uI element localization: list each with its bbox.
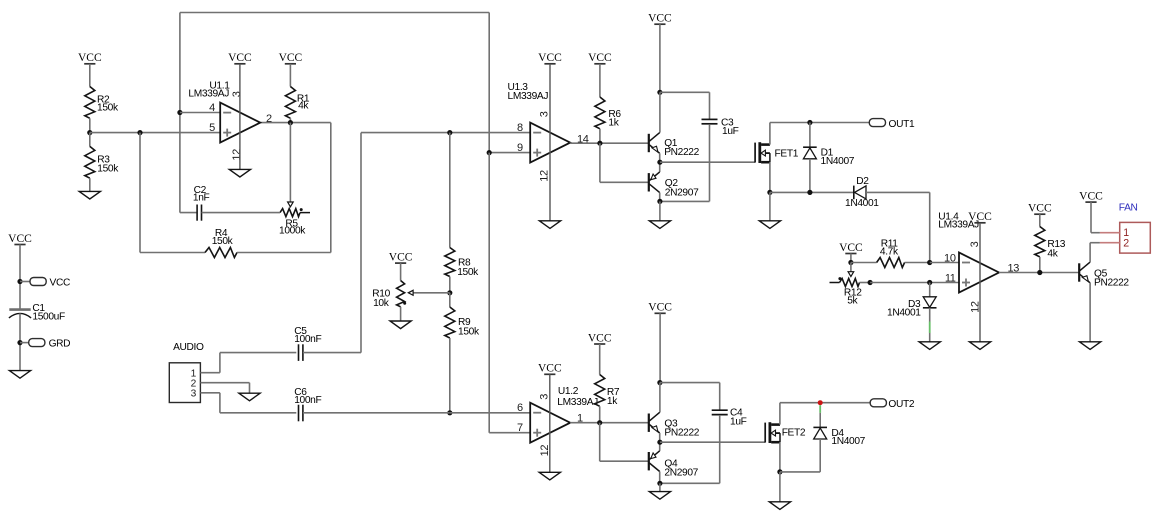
wire pin11 row [870, 282, 959, 284]
transistor Q3 PN2222 [659, 383, 661, 413]
svg-text:6: 6 [517, 402, 523, 414]
op-amp U1.3 LM339AJ [530, 123, 570, 163]
pin 1 stub (red) [1100, 232, 1120, 234]
svg-text:150k: 150k [212, 236, 234, 247]
svg-text:VCC: VCC [228, 52, 252, 64]
svg-text:VCC: VCC [968, 211, 992, 223]
svg-text:150k: 150k [457, 267, 479, 278]
svg-text:VCC: VCC [538, 363, 562, 375]
op-amp U1.4 LM339AJ [959, 253, 999, 293]
svg-text:VCC: VCC [1028, 203, 1052, 215]
diode D1 1N4007 [809, 123, 811, 148]
svg-text:1nF: 1nF [193, 193, 210, 204]
wire C3 bottom to Q2 collector rail [660, 200, 710, 202]
svg-text:LM339AJ: LM339AJ [557, 397, 598, 408]
wire pin13 output row [999, 272, 1079, 274]
wire C4 bottom to Q4 collector rail [660, 482, 720, 484]
resistor R8 150k [445, 248, 455, 277]
svg-text:10k: 10k [373, 298, 390, 309]
power VCC (R7) [594, 343, 605, 345]
ground U1.3 pin12 [539, 221, 560, 229]
svg-text:3: 3 [539, 394, 551, 400]
svg-text:FAN: FAN [1119, 202, 1138, 213]
wire D2 anode to pin10 [866, 191, 930, 193]
svg-text:5k: 5k [847, 296, 858, 307]
wire pin5 row [90, 132, 220, 134]
svg-text:1uF: 1uF [730, 416, 747, 427]
wire pin8 junction down to R8 [449, 133, 451, 248]
node Q4 collector junction [659, 472, 661, 484]
svg-text:3: 3 [191, 389, 197, 400]
svg-text:AUDIO: AUDIO [173, 342, 204, 353]
transistor Q4 2N2907 [648, 452, 650, 470]
node Q1 emitter junction [659, 153, 661, 172]
svg-text:VCC: VCC [839, 242, 863, 254]
svg-text:D2: D2 [856, 176, 869, 187]
node pin10 junction [927, 260, 932, 265]
wire pin6 row [303, 412, 450, 414]
svg-text:2N2907: 2N2907 [664, 468, 698, 479]
wire U1.3 power vertical [549, 64, 551, 221]
svg-text:VCC: VCC [648, 13, 672, 25]
wire U1.4 power vertical [979, 223, 981, 342]
node pin9 junction [487, 150, 492, 155]
power VCC (U1.2 pin3) [544, 373, 555, 375]
wire pin4 to U1.1 [180, 112, 220, 114]
ground below D3 [919, 342, 940, 350]
wire AUDIO pin2 to ground [200, 382, 249, 384]
diode D2 1N4001 [853, 186, 855, 200]
wire FET2 source rail [779, 442, 781, 472]
node Q3 collector/VCC junction [657, 380, 662, 385]
svg-text:VCC: VCC [50, 278, 70, 289]
wire top rail to C3 [660, 91, 710, 93]
wire C5 to x361 vertical [303, 352, 361, 354]
wire pin2 output row [260, 122, 331, 124]
svg-text:PN2222: PN2222 [664, 428, 699, 439]
node junction to R4 loop [137, 130, 142, 135]
svg-text:100nF: 100nF [294, 395, 321, 406]
power VCC (Q1 collector) [654, 23, 665, 25]
connector OUT1 [869, 119, 885, 127]
svg-text:4k: 4k [1047, 249, 1058, 260]
ground below FET1 [769, 192, 771, 220]
svg-text:VCC: VCC [648, 302, 672, 314]
transistor Q1 PN2222 [659, 92, 661, 132]
op-amp U1.2 LM339AJ [530, 403, 570, 443]
wire pin14 output row [569, 142, 571, 145]
connector tap VCC [30, 278, 46, 286]
potentiometer R12 5k [830, 282, 840, 284]
power VCC (R2) [84, 63, 95, 65]
wire left vertical from top wire to C2 [179, 13, 181, 213]
power VCC (R13) [1034, 213, 1045, 215]
capacitor C4 [712, 409, 728, 411]
connector OUT2 [870, 399, 886, 407]
svg-text:5: 5 [209, 122, 215, 134]
svg-text:LM339AJ: LM339AJ [188, 88, 229, 99]
power VCC (U1.3 pin3) [544, 63, 555, 65]
power VCC (R1) [285, 63, 296, 65]
capacitor C1 1500uF (polarized) [9, 308, 30, 311]
svg-text:1N4001: 1N4001 [887, 307, 921, 318]
potentiometer R5 [280, 209, 300, 217]
wire gate row to FET2 [660, 441, 765, 443]
svg-text:150k: 150k [97, 103, 119, 114]
wire pin10 to U1.4 [930, 262, 959, 264]
power VCC (Q3 collector) [655, 312, 666, 314]
svg-text:VCC: VCC [78, 52, 102, 64]
wire ERC-marked segment (green) [819, 405, 821, 413]
capacitor C6 100nF [298, 405, 300, 422]
svg-text:VCC: VCC [588, 52, 612, 64]
svg-text:12: 12 [231, 149, 243, 161]
svg-text:VCC: VCC [588, 332, 612, 344]
node R11/R12 wiper junction [850, 254, 852, 263]
node R8/R9/R10 junction [447, 290, 452, 295]
node pin6 junction [447, 410, 452, 415]
power VCC (FAN pin1) [1085, 201, 1096, 203]
svg-text:150k: 150k [97, 164, 119, 175]
svg-text:1000k: 1000k [279, 226, 306, 237]
power VCC (R6) [594, 63, 605, 65]
node GRD tap junction [17, 340, 22, 345]
node D1 anode junction [807, 190, 812, 195]
node R2/R3 junction [87, 130, 92, 135]
ground below FET2 [779, 472, 781, 502]
svg-text:3: 3 [231, 91, 243, 97]
wire U1.1 power pin vertical [239, 64, 241, 170]
node Q3 emitter junction [659, 433, 661, 451]
svg-text:150k: 150k [458, 326, 480, 337]
wire R5 wiper vertical [289, 123, 291, 203]
wire AUDIO pin3 to C6 row [200, 392, 220, 394]
ground below Q2 [659, 201, 661, 220]
capacitor C2 [180, 212, 197, 214]
resistor R3 [89, 133, 91, 147]
svg-text:2: 2 [1123, 237, 1129, 249]
wire pin9 row [489, 152, 530, 154]
svg-text:1N4007: 1N4007 [831, 436, 865, 447]
svg-text:12: 12 [539, 170, 551, 182]
wire R4 right lead to right vertical [237, 252, 331, 254]
wire down to R4 row [139, 133, 141, 253]
resistor R9 150k [449, 293, 451, 307]
wire to R10 wiper [413, 292, 450, 294]
node pin2/R1 junction [288, 120, 293, 125]
svg-text:FET1: FET1 [775, 148, 799, 159]
wire FET1 source rail [769, 162, 771, 192]
svg-text:PN2222: PN2222 [1094, 277, 1129, 288]
resistor R1 [285, 87, 295, 119]
op-amp U1.1 LM339AJ [220, 103, 260, 143]
svg-text:U1.2: U1.2 [558, 386, 579, 397]
transistor FET1 [754, 143, 756, 163]
node pin8/R8 junction [447, 130, 452, 135]
wire Q5 emitter to ground [1089, 283, 1091, 342]
wire down to Q4 base [599, 423, 601, 462]
node VCC tap junction [17, 279, 22, 284]
ground below R3 [79, 191, 100, 199]
svg-text:GRD: GRD [49, 339, 71, 350]
ground AUDIO pin2 [239, 393, 260, 401]
wire right vertical from top wire to pin9 junction [488, 13, 490, 153]
power VCC (U1.4 pin3) [974, 222, 985, 224]
svg-text:4.7k: 4.7k [880, 247, 899, 258]
svg-text:1uF: 1uF [722, 126, 739, 137]
diode D4 1N4007 [819, 413, 821, 427]
capacitor C3 [702, 118, 718, 120]
node R12 junction [868, 280, 873, 285]
node Q2 collector junction [659, 193, 661, 202]
potentiometer R12 5k wiper [850, 263, 852, 272]
ground below Q5 [1080, 342, 1101, 350]
svg-text:1500uF: 1500uF [32, 311, 65, 322]
svg-text:7: 7 [517, 422, 523, 434]
transistor FET2 [764, 423, 766, 443]
power VCC (C1) [14, 244, 25, 246]
svg-text:3: 3 [538, 111, 550, 117]
resistor R13 4k [1035, 227, 1045, 257]
wire AUDIO pin1 to C5 row [200, 372, 220, 374]
power VCC (R10) [395, 262, 406, 264]
node D3 junction [927, 280, 932, 285]
svg-text:VCC: VCC [1079, 191, 1103, 203]
ground U1.1 pin12 [229, 169, 250, 177]
connector AUDIO [169, 363, 200, 403]
node R13/pin13 junction [1037, 270, 1042, 275]
svg-text:OUT1: OUT1 [889, 119, 915, 130]
resistor R6 [595, 97, 605, 129]
resistor R11 4.7k [851, 262, 877, 264]
power VCC (R11) [845, 253, 856, 255]
wire long vertical x=489 to pin7 [488, 153, 490, 433]
wire long vertical x=361 to C5 [360, 133, 362, 353]
svg-text:OUT2: OUT2 [888, 399, 914, 410]
wire U1.2 power vertical [549, 374, 551, 472]
pin 2 stub (red) [1100, 242, 1120, 244]
svg-text:VCC: VCC [8, 233, 32, 245]
wire pin8 row [361, 132, 530, 134]
potentiometer R5 wiper arrow [288, 202, 294, 207]
svg-text:2: 2 [266, 113, 272, 125]
svg-text:1N4001: 1N4001 [845, 198, 879, 209]
wire pin1 output row [570, 422, 648, 424]
svg-text:9: 9 [517, 142, 523, 154]
svg-text:100nF: 100nF [294, 334, 321, 345]
ground below C1 [9, 371, 30, 379]
wire Q5 collector to FAN pin2 [1089, 243, 1091, 262]
svg-text:VCC: VCC [389, 252, 413, 264]
wire R4 row left lead [140, 252, 205, 254]
diode D3 1N4001 [929, 283, 931, 297]
svg-text:11: 11 [945, 273, 956, 285]
potentiometer R10 wiper arrow [408, 290, 413, 295]
ground U1.2 pin12 [539, 472, 560, 480]
svg-text:LM339AJ: LM339AJ [508, 91, 549, 102]
svg-text:1k: 1k [607, 396, 618, 407]
wire D3 cathode down [929, 308, 931, 322]
svg-text:1N4007: 1N4007 [821, 156, 855, 167]
ground below R10 [390, 321, 411, 329]
svg-text:2N2907: 2N2907 [665, 187, 699, 198]
svg-text:VCC: VCC [538, 52, 562, 64]
potentiometer R10 10k [397, 281, 405, 307]
connector tap GRD [29, 339, 45, 347]
transistor Q2 2N2907 [648, 173, 650, 191]
svg-text:1k: 1k [608, 118, 619, 129]
node Q1 collector/VCC junction [657, 90, 662, 95]
power VCC (U1.1 pin3) [234, 63, 245, 65]
node OUT2 junction (red ERC dot) [818, 400, 823, 405]
node D1/OUT1 junction [807, 120, 812, 125]
svg-text:4: 4 [209, 102, 215, 114]
svg-text:8: 8 [517, 122, 523, 134]
node pin1 junction [597, 420, 602, 425]
resistor R7 1k [595, 375, 605, 407]
capacitor C5 100nF [298, 344, 300, 361]
node pin4 junction [177, 110, 182, 115]
ground below Q4 [659, 483, 661, 491]
svg-text:4k: 4k [298, 101, 309, 112]
transistor Q5 PN2222 [1078, 263, 1080, 281]
ground U1.4 pin12 [969, 342, 990, 350]
wire top rail to C4 [660, 382, 720, 384]
svg-text:PN2222: PN2222 [664, 147, 699, 158]
wire ERC-marked segment (green) [929, 322, 931, 334]
svg-text:3: 3 [969, 241, 981, 247]
wire gate row to FET1 [660, 161, 755, 163]
wire down to Q2 base [599, 143, 601, 182]
svg-text:10: 10 [944, 253, 956, 265]
svg-text:VCC: VCC [279, 52, 303, 64]
svg-text:FET2: FET2 [782, 427, 806, 438]
resistor R2 [85, 87, 95, 119]
top feedback wire [180, 12, 489, 14]
connector FAN (red) [1120, 222, 1151, 253]
node pin14 junction [597, 141, 602, 146]
wire FET1 drain to OUT1 rail [769, 123, 771, 145]
wire FET2 drain to OUT2 rail [779, 403, 781, 425]
resistor R4 [205, 248, 237, 258]
